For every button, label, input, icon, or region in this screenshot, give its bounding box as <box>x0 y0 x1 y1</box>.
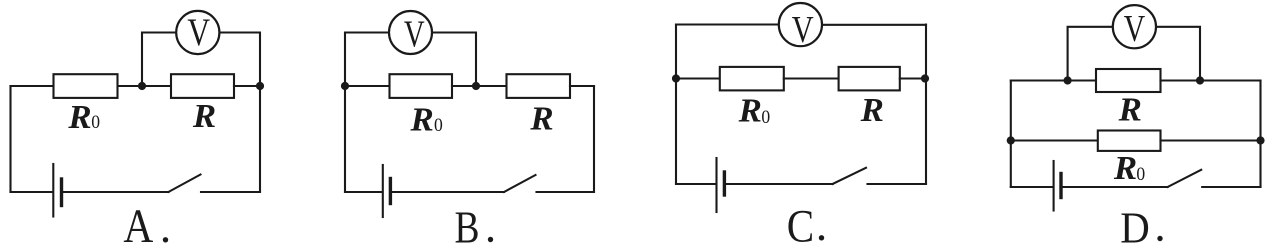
battery BT (D) short plate <box>1059 174 1062 198</box>
wire: B R to right corner <box>570 85 594 87</box>
wire: A battery to switch <box>63 191 169 193</box>
wire: D middle branch R0 to right <box>1161 139 1261 141</box>
svg-text:R: R <box>1113 150 1137 187</box>
switch S (D) blade <box>1168 170 1202 187</box>
wire: C switch to right corner <box>868 183 927 185</box>
voltmeter U1 (C) <box>779 3 822 46</box>
wire: D left vertical <box>1010 81 1012 188</box>
option label D period <box>1157 236 1162 241</box>
wire: C bottom-left segment <box>676 183 716 185</box>
resistor R (D) <box>1096 69 1161 92</box>
wire: B voltmeter right lead <box>432 33 476 87</box>
svg-text:V: V <box>187 11 210 54</box>
svg-text:C: C <box>787 201 814 245</box>
wire: C left to R0 <box>676 77 720 79</box>
svg-text:D: D <box>1120 202 1150 245</box>
wire: B battery to switch <box>392 191 504 193</box>
resistor R0 (D) <box>1098 131 1161 151</box>
svg-text:0: 0 <box>91 112 100 133</box>
svg-text:0: 0 <box>761 107 770 128</box>
wire: C battery to switch <box>726 183 833 185</box>
node: D middle-right junction <box>1256 136 1264 144</box>
wire: D switch to right corner <box>1202 186 1260 188</box>
svg-text:V: V <box>1124 8 1146 50</box>
switch S (C) blade <box>833 168 866 184</box>
svg-text:R: R <box>1118 91 1142 128</box>
node: D top-left junction <box>1064 76 1072 84</box>
battery BT (D) long plate <box>1053 161 1055 211</box>
battery BT (A) long plate <box>52 164 54 217</box>
wire: B right vertical <box>593 86 595 192</box>
wire: C right vertical <box>925 25 927 185</box>
wire: A voltmeter right lead <box>219 33 260 87</box>
wire: D right vertical <box>1259 81 1261 188</box>
svg-text:V: V <box>404 13 425 55</box>
resistor R0 (C) <box>720 67 784 91</box>
wire: B between R0 and R <box>452 85 507 87</box>
resistor R0 (A) <box>54 74 118 98</box>
node: C right junction <box>921 74 929 82</box>
resistor R0 (B) <box>390 74 453 98</box>
node: B left junction <box>341 82 349 90</box>
wire: B top-left to R0 <box>345 85 390 87</box>
wire: D bottom-left segment <box>1011 186 1053 188</box>
voltmeter U1 (A) <box>176 11 219 54</box>
wire: D top branch left to R <box>1011 79 1096 81</box>
wire: A between R0 and R <box>120 85 172 87</box>
switch S (A) blade <box>168 175 200 193</box>
svg-text:R: R <box>409 102 433 139</box>
node: B junction between R0 and R <box>472 82 480 90</box>
svg-text:0: 0 <box>1136 164 1145 185</box>
battery BT (A) short plate <box>60 179 63 206</box>
voltmeter U1 (B) <box>389 11 432 54</box>
battery BT (C) long plate <box>715 158 717 212</box>
svg-text:R: R <box>67 99 91 136</box>
switch S (B) blade <box>504 175 536 192</box>
wire: D middle branch left to R0 <box>1011 139 1098 141</box>
resistor R (C) <box>839 67 900 91</box>
svg-text:R: R <box>860 92 884 129</box>
wire: B switch to right corner <box>537 191 595 193</box>
wire: A switch to right corner <box>201 191 260 193</box>
option label A period <box>163 237 168 242</box>
resistor R (A) <box>171 74 234 98</box>
node: C left junction <box>672 74 680 82</box>
battery BT (B) long plate <box>382 165 384 217</box>
wire: A right vertical <box>259 86 261 192</box>
wire: C R to right <box>900 77 926 79</box>
node: A junction between R0 and R <box>138 82 146 90</box>
wire: B bottom-left segment <box>345 191 382 193</box>
wire: D voltmeter left lead <box>1068 27 1113 81</box>
node: D middle-left junction <box>1007 136 1015 144</box>
svg-text:R: R <box>192 98 216 135</box>
resistor R (B) <box>507 74 571 98</box>
option label B period <box>488 237 493 242</box>
wire: A left vertical <box>9 86 11 192</box>
battery BT (B) short plate <box>389 179 392 204</box>
wire: D voltmeter right lead <box>1156 27 1201 81</box>
wire: B left vertical <box>344 86 346 192</box>
wire: C left vertical <box>675 25 677 185</box>
battery BT (C) short plate <box>723 172 726 195</box>
wire: A top-left to R0 <box>11 85 54 87</box>
wire: A voltmeter left lead <box>142 33 176 87</box>
svg-text:0: 0 <box>434 115 443 136</box>
wire: C top-left to voltmeter <box>676 23 780 25</box>
wire: A R to right corner <box>234 85 260 87</box>
svg-text:B: B <box>455 201 480 245</box>
wire: C between R0 and R <box>784 77 839 79</box>
node: A right junction <box>256 82 264 90</box>
node: D top-right junction <box>1196 76 1204 84</box>
wire: C voltmeter to top-right <box>822 24 926 26</box>
svg-text:R: R <box>529 101 553 138</box>
voltmeter U1 (D) <box>1113 5 1156 48</box>
option label C period <box>819 235 824 240</box>
wire: D top branch R to right <box>1161 79 1261 81</box>
wire: D battery to switch <box>1063 186 1168 188</box>
wire: B voltmeter left lead <box>345 33 389 87</box>
svg-text:R: R <box>738 93 762 130</box>
svg-text:A: A <box>123 201 153 245</box>
wire: A bottom-left segment <box>11 191 53 193</box>
svg-text:V: V <box>792 9 814 51</box>
